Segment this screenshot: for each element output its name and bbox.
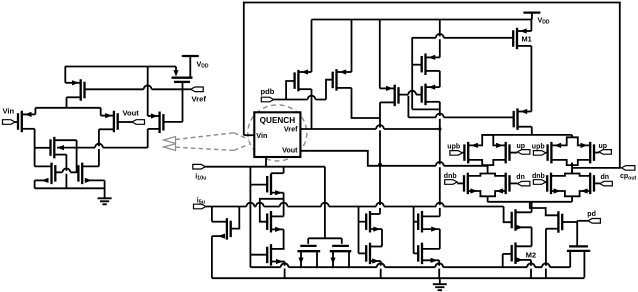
- wire PMOS top bridge (right quad): [551, 137, 590, 145]
- wire M_casc1 drain up-right: [54, 140, 76, 172]
- output port cpout: [620, 166, 637, 182]
- wire A2 source down: [271, 229, 284, 249]
- transistor M1 (PMOS): [513, 28, 532, 50]
- wire N_D2 gate: [414, 252, 419, 254]
- wire P3 gate to P5 gate: [399, 94, 422, 96]
- wire P4 drain to P5: [426, 71, 440, 87]
- transistor P4 (PMOS upper of stack): [422, 53, 436, 74]
- transistor M_out (PMOS, mirrored): [105, 111, 118, 133]
- wire M1 drain down: [517, 46, 531, 112]
- wire hop i5u over drive chain: [436, 203, 444, 208]
- wire N_V2 source to ground rail: [370, 261, 381, 278]
- transistor P3 (PMOS, mirrored): [386, 85, 399, 107]
- wire quad mid vertical lower (left quad): [487, 165, 489, 173]
- wire quad bottom drop (left quad): [487, 196, 489, 202]
- power VDD (main): [523, 13, 550, 26]
- wire i10u line: [205, 166, 325, 168]
- capacitor MOS-cap C1 (rotated NMOS): [297, 246, 320, 267]
- wire upb gate (left quad): [462, 152, 464, 154]
- svg-text:Vref: Vref: [284, 124, 298, 133]
- wire N_C1 source row: [516, 226, 532, 228]
- port pd: [587, 211, 600, 223]
- port up (left quad): [517, 143, 530, 154]
- svg-text:upb: upb: [447, 143, 460, 150]
- wire M_casc1 source down: [54, 155, 66, 189]
- wire NMOS bottom bridge (right quad): [551, 191, 590, 196]
- wire hop P3 gate over bias line: [408, 91, 416, 96]
- wire QUENCH Vout net: [300, 151, 487, 166]
- wire N_D2 source to ground rail: [422, 260, 439, 278]
- wire upb gate (right quad): [546, 152, 548, 154]
- wire M_n2 source: [85, 180, 105, 188]
- wire M_tail gate to Vref net: [85, 88, 184, 90]
- wire ground rail (rail2): [212, 277, 585, 279]
- wire quad bottom drop (right quad): [571, 196, 573, 202]
- node dot Vref-bias junction: [438, 127, 441, 130]
- wire P6 source stub: [518, 111, 532, 113]
- wire NMOS bottom bridge (left quad): [468, 191, 506, 196]
- wire P2 source to top rail: [337, 20, 352, 73]
- wire drive bias riser: [413, 207, 415, 254]
- wire M_ref2 source from top rail: [148, 67, 160, 117]
- transistor N_D1 (NMOS): [418, 211, 438, 233]
- wire N_V2 gate: [359, 252, 367, 254]
- wire P1 drain to Vref line: [298, 89, 311, 129]
- wire P3 source from rail: [380, 20, 395, 89]
- wire hop i5u over cap feed: [321, 203, 329, 208]
- callout dashed line upper: [176, 133, 249, 140]
- transistor M_in (PMOS input, left diff pair): [18, 111, 32, 133]
- chip boundary box (open frame): [244, 3, 620, 169]
- wire QUENCH bottom pin: [265, 157, 267, 167]
- wire P2 gate L: [326, 80, 333, 100]
- wire N_E drain jog from switch net: [530, 202, 559, 216]
- wire M_out gate to Vout port: [118, 121, 132, 123]
- port dn (left quad): [516, 174, 530, 186]
- wire bottom rail (left circuit): [35, 187, 105, 189]
- wire up gate (left quad): [510, 152, 518, 154]
- port dnb (left quad): [444, 173, 457, 184]
- node dot Vout-net junction: [378, 163, 382, 167]
- transistor N_V2 (NMOS): [366, 243, 379, 265]
- wire M_n1 drain from M_in: [35, 165, 52, 167]
- transistor switch NMOS left (x551.4) (right quad): [547, 173, 560, 195]
- capacitor MOS-cap C2 (rotated NMOS): [330, 246, 352, 267]
- wire dnb gate (left quad): [457, 182, 464, 184]
- wire P5 source stub: [426, 86, 440, 88]
- transistor switch NMOS right (x590.2) (right quad): [581, 173, 594, 195]
- transistor switch PMOS left (x468.2) (left quad): [464, 142, 478, 164]
- svg-text:dn: dn: [601, 174, 610, 181]
- transistor N_A1 (NMOS i10u diode): [267, 173, 282, 195]
- wire N_D2 drain stub: [422, 248, 440, 250]
- transistor M_ref (rotated PMOS at VDD): [172, 70, 193, 82]
- wire cpout line: [572, 163, 621, 174]
- wire P5 drain long vertical: [426, 102, 440, 217]
- wire A3 gate tap: [250, 254, 266, 256]
- wire M_ref source from rail: [175, 67, 177, 71]
- wire hop M1-gate over P4 source: [436, 34, 444, 39]
- wire N_E source down: [546, 229, 559, 279]
- wire M_n1 source to rail: [35, 180, 45, 188]
- transistor P2 (PMOS): [333, 69, 347, 91]
- svg-text:pdb: pdb: [261, 87, 275, 96]
- wire quad mid vertical lower (right quad): [571, 163, 573, 174]
- svg-text:cpout: cpout: [620, 173, 637, 181]
- wire pd line: [577, 221, 588, 247]
- callout arrowheads (dashed pointer to left circuit): [164, 137, 176, 151]
- transistor P6 (PMOS cascode): [514, 108, 528, 130]
- wire M1 source to VDD: [517, 20, 531, 32]
- wire quad mid vertical (left quad): [487, 164, 489, 166]
- transistor switch PMOS right (x505.7) (left quad): [496, 142, 510, 164]
- wire cap tee: [308, 238, 342, 244]
- transistor switch NMOS left (x468.2) (left quad): [464, 173, 477, 195]
- svg-text:dnb: dnb: [444, 173, 457, 180]
- wire hop Pcasc-gate over P5 drain: [436, 114, 444, 119]
- svg-text:Vout: Vout: [282, 146, 298, 155]
- svg-text:M2: M2: [526, 251, 536, 260]
- wire M_in drain down: [22, 129, 35, 167]
- wire quad mid vertical (right quad): [571, 163, 573, 166]
- input port Vin: [3, 107, 16, 125]
- wire right quad feed drop: [571, 135, 573, 137]
- wire dn gate (right quad): [594, 182, 600, 184]
- wire M_tail drain to diff rail: [67, 97, 81, 108]
- wire i5u line: [206, 206, 504, 208]
- port Vref (left): [191, 87, 207, 104]
- wire N_V1 source down: [370, 229, 382, 246]
- wire P3 drain down: [380, 102, 395, 163]
- svg-text:up: up: [599, 143, 608, 150]
- wire hop i5u over A2 drain: [280, 203, 288, 208]
- wire N_B source to ground rail: [212, 236, 223, 278]
- wire hop Vout over drive line: [436, 162, 444, 167]
- wire M_ref2 gate riser: [163, 82, 182, 122]
- svg-text:Vin: Vin: [3, 107, 15, 116]
- wire M_in source to tail rail: [22, 108, 36, 115]
- wire top rail: [312, 19, 532, 21]
- wire QUENCH Vin pin to border: [244, 134, 255, 136]
- wire hop i5u over A2 gate riser: [256, 203, 264, 208]
- wire pdb line: [274, 99, 326, 101]
- wire A1 gate tap: [250, 184, 266, 186]
- svg-text:dnb: dnb: [532, 173, 545, 180]
- wire A3 source to ground rail: [271, 262, 285, 279]
- callout dashed line lower: [176, 145, 249, 151]
- wire M2 drain stub: [516, 245, 532, 247]
- transistor switch PMOS right (x590.2) (right quad): [581, 142, 595, 164]
- transistor M_casc1 (with bulk stub): [51, 137, 65, 159]
- wire i10u bias chain vertical: [249, 167, 251, 268]
- transistor switch PMOS left (x551.4) (right quad): [548, 142, 562, 164]
- wire M2 gate to bias rail: [503, 254, 512, 267]
- wire hop rail1 over N_E source: [542, 263, 550, 268]
- wire top rail to VDD device: [65, 66, 176, 68]
- wire P4 gate tap: [412, 64, 421, 66]
- wire switch source net: [487, 201, 571, 203]
- transistor switch NMOS right (x505.7) (left quad): [496, 173, 509, 195]
- wire hop gate over M_casc1 source: [63, 168, 71, 173]
- wire hop rail1 over N_V2 source: [377, 263, 385, 268]
- wire P3-gate drop to Pcasc gate: [407, 95, 409, 118]
- wire A1 source down: [271, 193, 284, 217]
- transistor P5 (PMOS lower of stack): [422, 84, 436, 106]
- wire PMOS bottom bridge (right quad): [551, 160, 590, 165]
- svg-text:i5u: i5u: [197, 197, 205, 205]
- wire M_n1 gate to M_n2 gate: [55, 171, 78, 173]
- output port Vout: [123, 109, 145, 125]
- input port i10u: [193, 164, 207, 181]
- wire A2 drain stub: [271, 215, 284, 217]
- wire M_ref drain to VDD: [189, 56, 191, 78]
- power VDD (left): [182, 56, 209, 70]
- wire bias rail (rail1): [250, 266, 570, 268]
- transistor N_C1 (NMOS cascode above M2): [512, 209, 523, 231]
- transistor N_D2 (NMOS): [418, 243, 437, 265]
- transistor P1 (PMOS): [295, 69, 309, 91]
- wire N_V2 drain stub: [370, 246, 382, 248]
- wire P4 source up to rail: [426, 20, 440, 58]
- callout dashed ellipse around QUENCH: [248, 105, 307, 161]
- input port i5u: [194, 197, 207, 209]
- wire P1 source to top rail: [298, 20, 311, 73]
- wire hop i5u over P3 chain: [376, 203, 384, 208]
- wire N_C1 to M2 vertical: [531, 227, 533, 246]
- wire i5u end jog: [504, 207, 512, 223]
- port dnb (right quad): [532, 173, 546, 184]
- wire switch feed line: [482, 134, 572, 136]
- wire P1 gate L: [286, 81, 294, 100]
- wire Pcasc gate line: [408, 116, 513, 118]
- transistor M_tail (PMOS tail, mirrored): [72, 79, 85, 101]
- wire cap feed vertical: [324, 167, 326, 239]
- port dn (right quad): [600, 174, 613, 186]
- wire M_tail source to VDD rail: [65, 67, 80, 83]
- transistor N_A3 (NMOS mirror): [267, 244, 283, 266]
- wire N_V1 gate: [359, 221, 367, 223]
- wire Vref net line: [300, 128, 439, 130]
- transistor M2 (NMOS): [512, 242, 536, 264]
- capacitor pd MOS-cap (rotated): [567, 246, 590, 277]
- transistor M_n1 (NMOS, mirrored): [42, 163, 56, 185]
- wire NMOS top bridge (left quad): [468, 174, 506, 176]
- wire hop Vref over P3 drain: [376, 125, 384, 130]
- wire hop rail1 over N_D2 source: [435, 263, 443, 268]
- ground (left circuit): [98, 188, 112, 204]
- wire M_out source up: [101, 108, 114, 116]
- svg-text:Vin: Vin: [256, 131, 267, 140]
- wire P2 drain down: [337, 88, 381, 118]
- transistor M_n2 (NMOS): [78, 163, 91, 185]
- wire M2 source to ground rail: [516, 260, 532, 278]
- wire N_C1 drain up: [516, 202, 532, 213]
- transistor N_B (NMOS i5u diode, mirrored): [218, 218, 231, 240]
- wire up gate (right quad): [594, 152, 599, 154]
- transistor N_E (NMOS, mirrored, pd gate): [558, 211, 562, 233]
- wire Vref net to port: [183, 88, 191, 90]
- wire PMOS bottom bridge (left quad): [468, 160, 506, 165]
- wire dnb gate (right quad): [546, 182, 547, 184]
- port upb (left quad): [447, 143, 462, 155]
- wire NMOS top bridge (right quad): [551, 174, 590, 176]
- wire hop rail1 over A3 source: [281, 263, 289, 268]
- transistor N_V1 (NMOS): [366, 211, 380, 233]
- svg-text:upb: upb: [532, 143, 545, 150]
- wire hop Vref-gate over T_ref2 source: [144, 85, 152, 90]
- svg-text:Vout: Vout: [123, 109, 140, 118]
- wire N_D1 drain stub: [422, 215, 440, 217]
- ground (main): [433, 278, 447, 290]
- wire hop rail1 over M2 source: [527, 263, 535, 268]
- wire hop bulk over M_out drain: [95, 144, 103, 149]
- wire pdb hop over P1 drain: [308, 96, 316, 101]
- transistor N_A2 (NMOS cascode): [267, 211, 282, 233]
- input port pdb: [261, 87, 275, 102]
- svg-text:i10u: i10u: [195, 174, 206, 182]
- port upb (right quad): [532, 143, 546, 155]
- wire N_D1 source down: [422, 229, 440, 249]
- wire N_B drain up to i5u: [212, 207, 227, 222]
- wire M_out drain down: [99, 129, 114, 166]
- svg-text:M1: M1: [522, 35, 532, 44]
- svg-text:pd: pd: [587, 211, 596, 218]
- wire diff tail rail: [35, 107, 100, 109]
- transistor M_ref2 (PMOS, mirrored): [151, 112, 164, 134]
- svg-text:dn: dn: [516, 174, 525, 181]
- wire vout-stack bias riser: [358, 207, 360, 254]
- wire A3 drain stub: [271, 248, 285, 250]
- wire M_ref2 drain: [148, 129, 160, 148]
- wire hop i5u over A-chain: [247, 203, 255, 208]
- wire P6 drain to switch feed: [518, 127, 532, 135]
- wire A1 drain up: [271, 167, 284, 174]
- wire N_D1 gate: [414, 221, 419, 223]
- wire M_n2 drain up: [82, 165, 99, 167]
- wire M_casc1 bulk line: [57, 147, 148, 149]
- wire bias vertical: [412, 38, 440, 110]
- wire A2 gate riser: [260, 199, 284, 222]
- wire P3 drain chain to NMOS stack: [379, 166, 381, 214]
- wire dn gate (left quad): [510, 182, 518, 184]
- wire N_E gate to pd: [562, 221, 577, 223]
- svg-text:Vref: Vref: [192, 95, 207, 104]
- wire M1 gate line: [412, 37, 513, 39]
- port up (right quad): [599, 143, 612, 154]
- svg-text:up: up: [517, 143, 526, 150]
- wire N_V1 drain stub: [370, 213, 380, 215]
- wire PMOS top bridge (left quad): [468, 135, 506, 146]
- QUENCH block: [254, 112, 300, 157]
- wire Vin gate: [15, 121, 18, 123]
- wire N_B gate riser: [231, 207, 239, 229]
- wire M_casc1 gate: [35, 147, 51, 149]
